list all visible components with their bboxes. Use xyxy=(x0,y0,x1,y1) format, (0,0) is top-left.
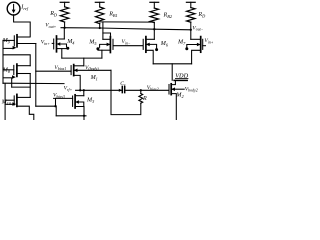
wire ground riser xyxy=(55,106,57,116)
VDD supply symbol xyxy=(174,79,187,81)
transistor M10 xyxy=(13,96,15,105)
junction dot M5 bulk-source xyxy=(96,47,99,50)
wire crossover hook xyxy=(103,33,111,35)
junction dot rail end xyxy=(190,29,192,31)
svg-text:RB2: RB2 xyxy=(163,12,173,19)
svg-text:Vbias2: Vbias2 xyxy=(147,85,159,91)
junction dot M3 source xyxy=(83,115,85,117)
svg-text:Vin+: Vin+ xyxy=(204,38,213,44)
junction dot RB2 rail xyxy=(153,28,155,30)
transistor M3 xyxy=(72,96,74,106)
svg-text:Cc: Cc xyxy=(120,81,126,87)
wire Cc to M2 gate xyxy=(126,89,169,91)
svg-text:RD: RD xyxy=(197,12,206,18)
wire Iref to M9 drain xyxy=(14,15,31,37)
resistor at x=190.8 xyxy=(187,8,195,23)
wire tail pair1 xyxy=(62,57,102,59)
transistor M4 xyxy=(53,39,55,49)
transistor M5 xyxy=(112,39,114,49)
svg-text:M2: M2 xyxy=(175,92,184,99)
svg-text:M10: M10 xyxy=(1,99,12,106)
node Vbias1 wire xyxy=(36,70,71,72)
junction dot M4 bulk-source xyxy=(66,47,69,50)
resistor at x=64.6 xyxy=(60,7,68,22)
VDD bar x=154.3 xyxy=(150,1,159,3)
junction dot bias3 xyxy=(54,105,56,107)
capacitor Cc xyxy=(121,86,123,92)
wire Vrf+ line xyxy=(76,89,122,91)
transistor M9 xyxy=(13,36,15,46)
resistor R xyxy=(139,94,143,104)
svg-text:M8: M8 xyxy=(2,68,11,75)
svg-text:M5: M5 xyxy=(88,39,97,46)
wire Vrf feed horizontal xyxy=(3,82,64,84)
junction dot M1 source xyxy=(79,89,81,91)
svg-text:Vrf+: Vrf+ xyxy=(64,86,73,92)
svg-text:VDD: VDD xyxy=(175,72,188,79)
svg-text:V(body): V(body) xyxy=(85,65,99,71)
VDD bar x=99.7 xyxy=(95,1,104,3)
wire output rail xyxy=(61,28,191,30)
svg-text:RD: RD xyxy=(49,11,58,18)
svg-text:M7: M7 xyxy=(177,39,186,46)
VDD bar x=64.6 xyxy=(60,1,69,3)
junction dot RB1 rail xyxy=(99,27,101,29)
transistor M8 xyxy=(13,65,15,74)
resistor at x=154.3 xyxy=(150,8,158,23)
transistor M7 xyxy=(202,39,204,49)
wire M8 source to M10 drain xyxy=(29,74,31,98)
transistor M2 xyxy=(168,85,170,95)
wire tail pair2 xyxy=(153,63,191,65)
junction dot R top xyxy=(140,89,142,91)
svg-text:Vbias3: Vbias3 xyxy=(53,93,65,99)
wire M8 drain link xyxy=(3,55,30,66)
wire bias tap vertical xyxy=(35,44,37,107)
junction dot M6 bulk xyxy=(155,48,158,51)
wire ground rail xyxy=(56,115,86,117)
junction dot M7 bulk xyxy=(185,47,188,50)
junction dot M3 drain xyxy=(83,89,85,91)
wire M8 bulk link xyxy=(11,78,13,87)
svg-text:RB1: RB1 xyxy=(108,12,118,19)
svg-text:M3: M3 xyxy=(86,98,94,105)
node Vbias3 wire xyxy=(54,97,73,99)
junction dot RD1 xyxy=(63,27,65,29)
transistor M6 xyxy=(142,39,144,49)
svg-text:Vbias1: Vbias1 xyxy=(54,65,66,71)
svg-text:R: R xyxy=(142,96,147,102)
wire left bias rail xyxy=(2,40,4,83)
current source Iref xyxy=(7,2,20,15)
svg-text:Vin+: Vin+ xyxy=(41,40,50,46)
svg-text:Vbody2: Vbody2 xyxy=(185,86,198,92)
svg-text:M1: M1 xyxy=(90,75,98,82)
resistor at x=99.7 xyxy=(96,7,104,24)
svg-text:M4: M4 xyxy=(66,39,75,46)
wire RB1 to RB2 link xyxy=(100,21,155,23)
svg-text:Vout+: Vout+ xyxy=(45,23,56,29)
svg-text:Iref: Iref xyxy=(20,5,28,12)
transistor M1 xyxy=(70,66,72,75)
VDD bar x=190.8 xyxy=(186,1,195,3)
svg-text:Vin−: Vin− xyxy=(122,39,131,45)
wire bias3 link xyxy=(36,105,56,107)
svg-text:Vout−: Vout− xyxy=(192,25,203,31)
svg-text:M6: M6 xyxy=(160,41,169,48)
